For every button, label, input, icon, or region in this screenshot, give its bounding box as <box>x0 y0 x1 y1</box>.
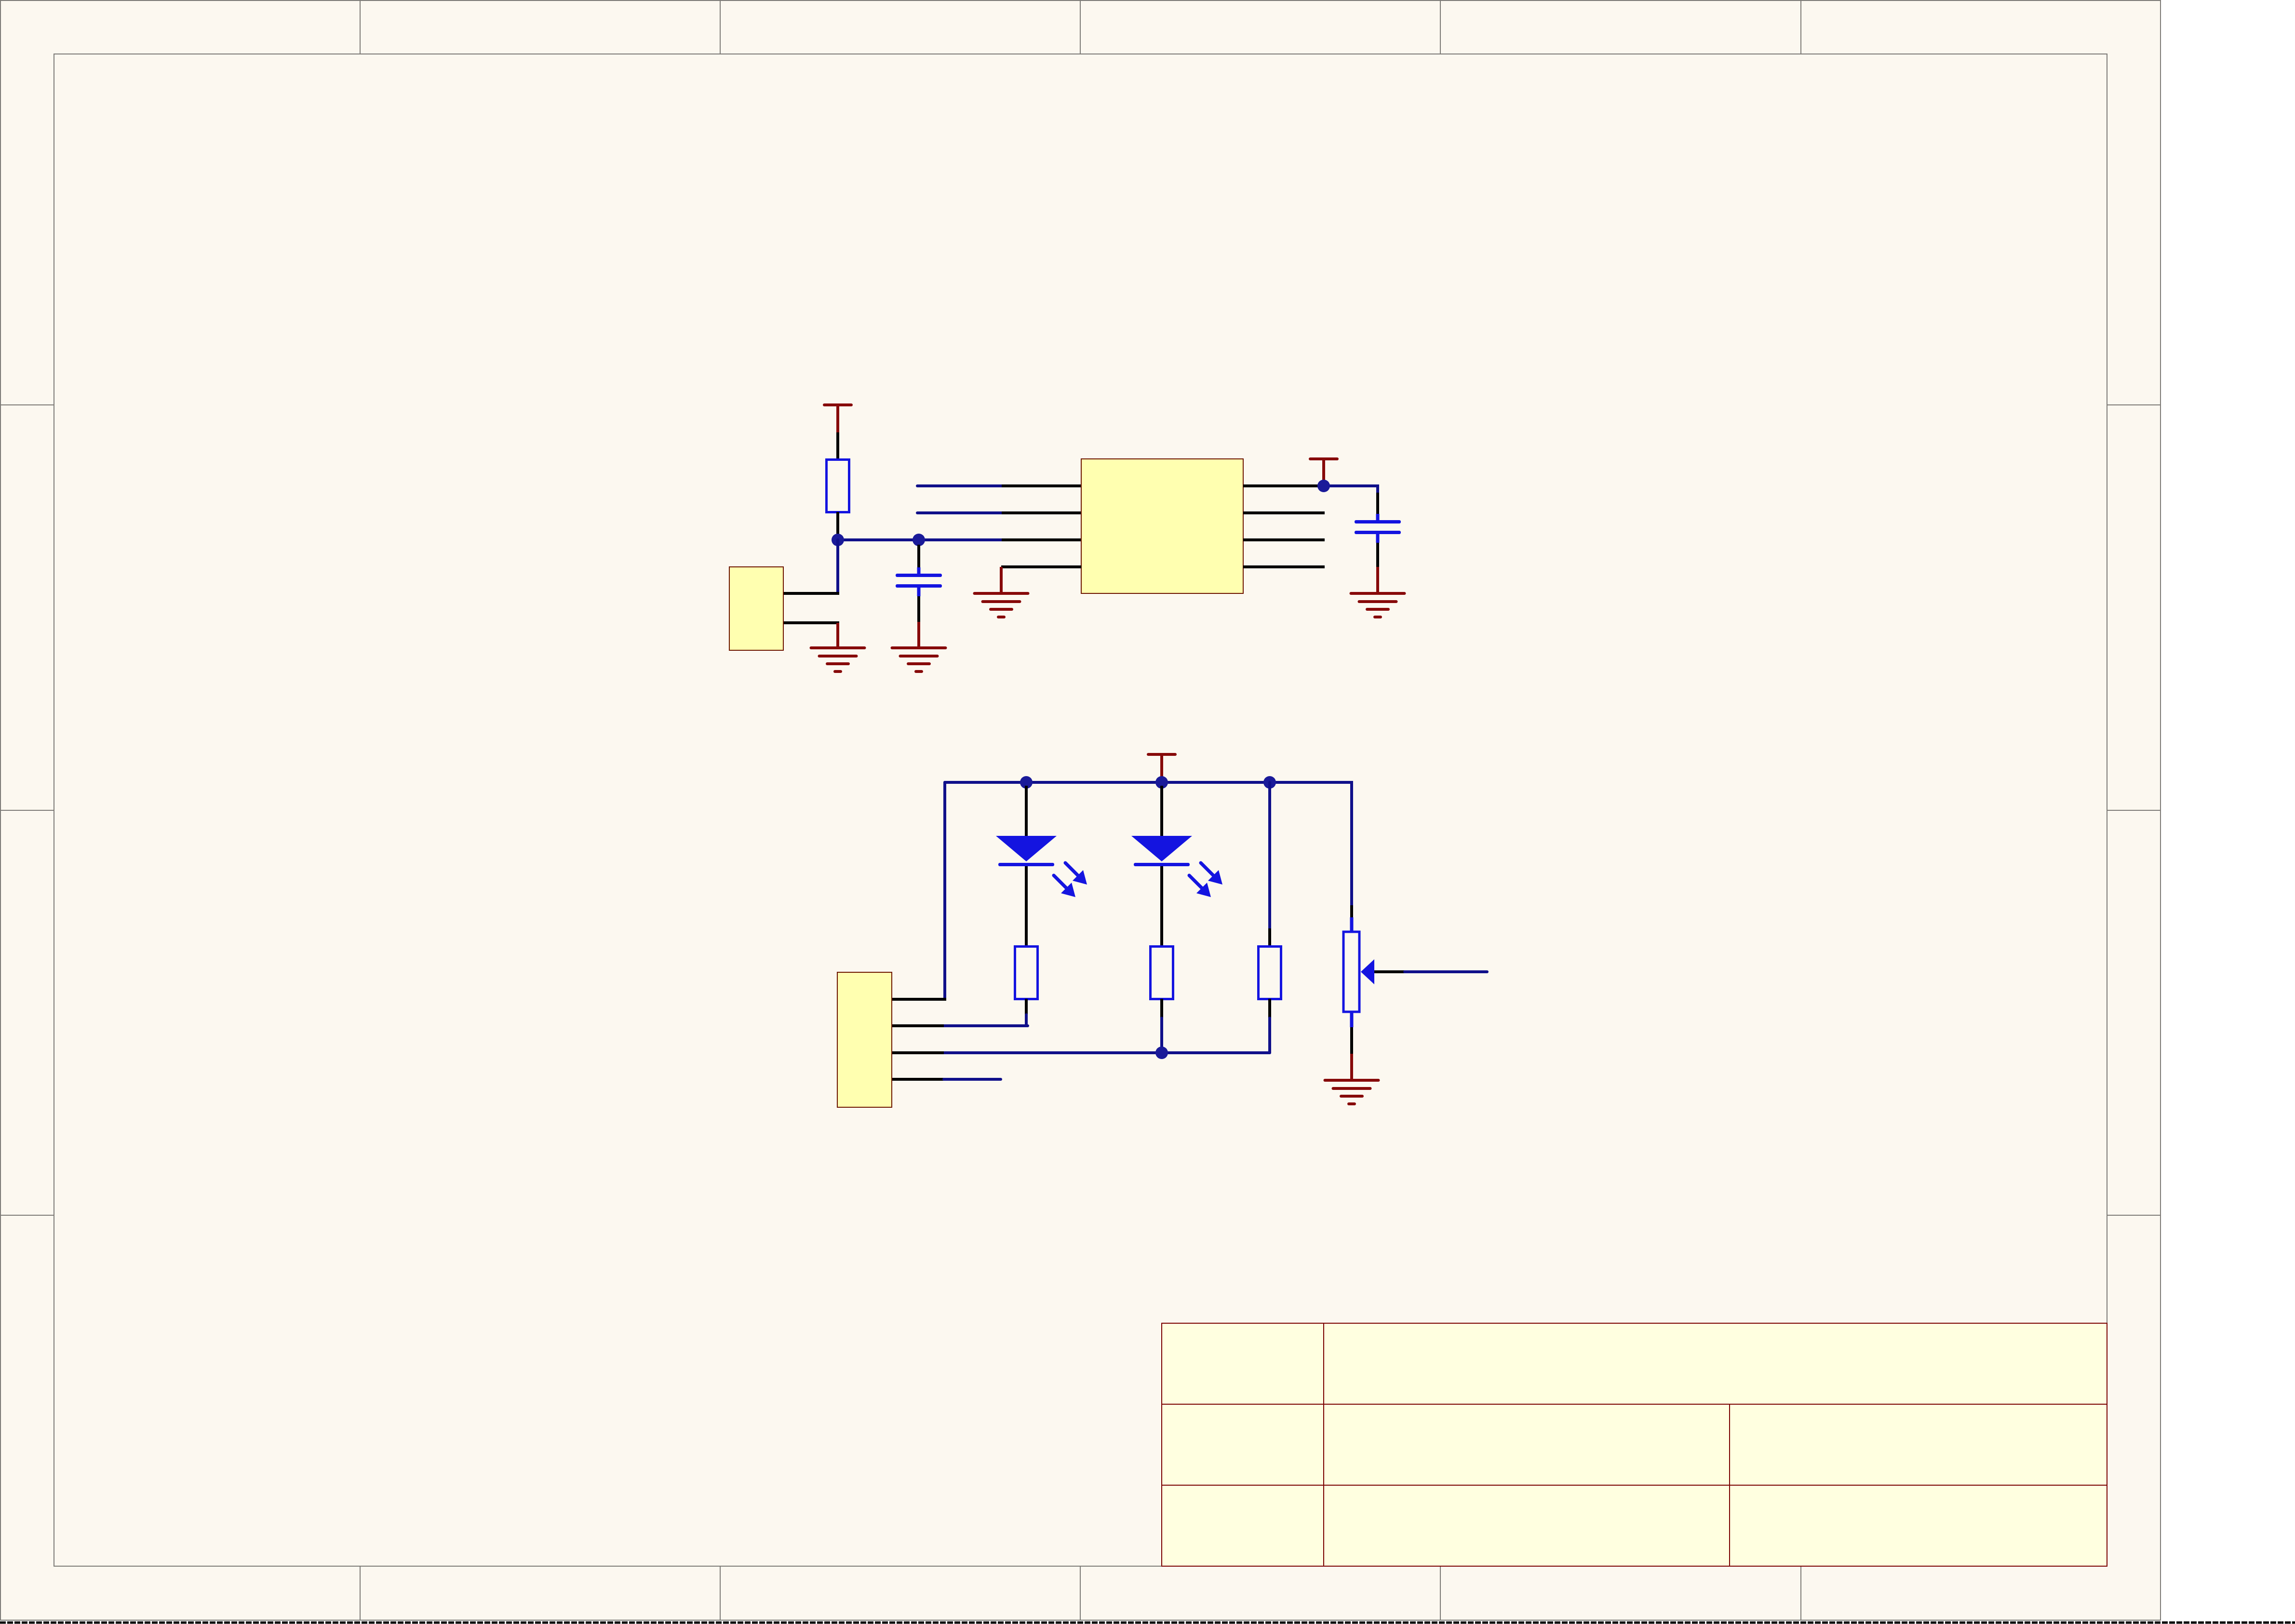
power VCC P1 <box>823 403 853 432</box>
wire rail to RP1 <box>1350 782 1352 905</box>
pin J1.2 <box>783 621 839 624</box>
ground GND1 stem <box>836 623 839 648</box>
pin U1.2 <box>1002 511 1081 514</box>
title block <box>1162 1323 2107 1566</box>
resistor R2 bottom lead <box>1025 999 1028 1026</box>
wire rail to R4 <box>1268 782 1271 928</box>
junction G <box>1155 1047 1168 1059</box>
junction E <box>1155 776 1168 789</box>
pin R1.2 <box>836 512 839 539</box>
capacitor C2 <box>1355 520 1401 534</box>
ground GND4 stem <box>1376 567 1379 593</box>
wire stub row 2 <box>917 511 1002 514</box>
pin U1.8 <box>1243 484 1324 487</box>
capacitor C2 bottom lead <box>1376 534 1380 567</box>
ground GND1 <box>810 646 866 673</box>
capacitor C1 top lead <box>917 545 920 574</box>
pin R4 top <box>1268 928 1271 946</box>
pin J2.4 <box>892 1078 944 1081</box>
capacitor C2 top lead <box>1376 493 1379 520</box>
pin LED1 anode <box>1025 786 1028 836</box>
pin U1.5 <box>1243 565 1325 568</box>
resistor R1 <box>827 460 849 512</box>
LED2 arrow 1 <box>1201 863 1222 885</box>
junction D <box>1020 776 1033 789</box>
ground GND5 stem <box>1350 1054 1353 1080</box>
potentiometer RP1 wiper arrow <box>1361 959 1374 984</box>
pin RP1 top <box>1350 905 1353 932</box>
pin J2.3 <box>892 1051 944 1054</box>
pin J1.1 <box>783 592 839 595</box>
wire stub J2.4 <box>944 1078 1001 1081</box>
ground GND2 <box>891 646 947 673</box>
power VCC P2 <box>1309 457 1339 486</box>
junction C <box>1317 480 1330 492</box>
wire net A horizontal <box>838 538 1002 541</box>
wire R2 to J2.2 <box>944 1024 1028 1027</box>
resistor R4 bottom lead <box>1268 999 1271 1053</box>
pin U1.6 <box>1243 538 1325 541</box>
wire left rail down <box>943 782 946 999</box>
potentiometer RP1 <box>1343 932 1359 1012</box>
pin RP1 wiper <box>1374 970 1405 973</box>
wire A down to J1 <box>836 540 839 593</box>
junction F <box>1263 776 1276 789</box>
pin U1.4 GND <box>1001 565 1081 568</box>
ground GND4 <box>1350 592 1406 618</box>
pin R1.1 <box>836 432 839 459</box>
resistor R3 bottom lead <box>1160 999 1163 1053</box>
junction A <box>832 534 844 546</box>
wire bottom net <box>944 1051 1270 1054</box>
ground GND3 stem <box>1000 567 1003 593</box>
pin U1.3 <box>1002 538 1081 541</box>
ground GND5 <box>1324 1079 1380 1105</box>
LED1 arrow 1 <box>1065 863 1087 885</box>
resistor R4 <box>1259 947 1281 999</box>
pin U1.7 <box>1243 511 1325 514</box>
pin RP1 bottom <box>1350 1012 1354 1054</box>
wire stub row 1 <box>917 484 1002 487</box>
pin LED1 cathode <box>1025 866 1028 946</box>
pin J2.1 <box>892 998 946 1001</box>
pin U1.1 <box>1002 484 1081 487</box>
pin LED2 cathode <box>1160 866 1163 946</box>
capacitor C1 bottom lead <box>917 588 921 622</box>
wire VCC to C2 <box>1324 486 1378 493</box>
LED1 <box>996 836 1057 866</box>
resistor R2 <box>1015 947 1038 999</box>
ground GND2 stem <box>917 622 920 648</box>
capacitor C1 <box>896 574 942 588</box>
resistor R3 <box>1151 947 1173 999</box>
wire wiper stub <box>1405 970 1487 973</box>
junction B <box>913 534 925 546</box>
pin LED2 anode <box>1160 786 1163 836</box>
connector J1 <box>729 567 783 650</box>
LED2 arrow 2 <box>1189 875 1211 897</box>
LED2 <box>1131 836 1192 866</box>
LED1 arrow 2 <box>1054 875 1075 897</box>
connector J2 <box>837 972 892 1107</box>
ground GND3 <box>973 592 1030 618</box>
IC U1 <box>1081 459 1243 593</box>
pin J2.2 <box>892 1024 944 1027</box>
power VCC P3 <box>1147 753 1177 782</box>
wire top rail <box>945 781 1352 784</box>
